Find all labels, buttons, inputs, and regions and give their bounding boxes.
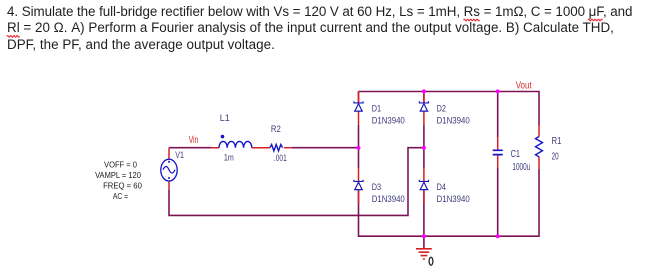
inductor L1 [212,135,270,148]
svg-text:V1: V1 [175,150,184,161]
diode D4 [419,168,428,204]
spellcheck squiggle under uF [588,19,602,21]
diode D3 [354,168,363,204]
wire: V1 top to L1 (net Vin) [169,147,212,149]
wire: V1 bottom to bridge right mid (node between D2/D4) [169,148,424,216]
svg-text:1000u: 1000u [512,162,530,173]
capacitor C1 [493,137,503,168]
svg-text:D4: D4 [437,182,446,193]
svg-text:R2: R2 [271,124,281,135]
wire: right branch top and bottom segments [423,91,425,236]
svg-text:VOFF = 0: VOFF = 0 [104,161,137,170]
svg-text:D1N3940: D1N3940 [372,116,405,126]
svg-text:20: 20 [552,151,559,162]
svg-text:VAMPL = 120: VAMPL = 120 [95,171,141,180]
svg-text:D1N3940: D1N3940 [437,194,470,204]
junction: bottom rail at C1 [496,234,500,238]
label V1 attributes VOFF/VAMPL/FREQ/AC [95,161,142,202]
svg-text:D3: D3 [372,182,381,193]
wire: R2 to bridge left branch [292,147,359,149]
svg-text:.001: .001 [274,153,287,164]
svg-text:FREQ = 60: FREQ = 60 [103,182,142,191]
wire: bottom rail (ground net) [359,169,540,236]
svg-text:Vout: Vout [516,81,532,92]
svg-text:1m: 1m [224,152,234,163]
junction: top rail at C1 [496,89,500,93]
wire: left branch top and bottom segments [358,91,360,204]
junction: bridge left mid node [357,146,361,150]
spellcheck squiggle under Rs [464,19,480,21]
diode D1 [354,91,363,125]
svg-text:R1: R1 [552,136,562,147]
wire: top rail (Vout net) from bridge top-left to R1 top [359,92,540,126]
diode D2 [419,91,428,125]
voltage source V1 [161,148,177,190]
ground 0 [416,236,432,259]
svg-text:L1: L1 [220,113,230,124]
svg-text:D1: D1 [372,103,381,114]
svg-text:D2: D2 [437,103,446,114]
svg-text:AC =: AC = [113,192,129,201]
junction: bottom rail at ground [422,234,426,238]
wire: right branch D2 bottom to mid junction [423,125,425,168]
resistor R2 [270,145,292,151]
label 0 (ground net) [429,257,433,265]
svg-text:C1: C1 [511,149,521,160]
wire: left branch D1 bottom to mid junction [358,125,360,168]
svg-text:D1N3940: D1N3940 [437,116,470,126]
svg-text:D1N3940: D1N3940 [372,194,405,204]
junction: top rail at D2 [422,89,426,93]
spellcheck squiggle under Rl [7,36,20,38]
svg-text:Vin: Vin [189,135,199,146]
junction: bridge right mid node [422,146,426,150]
wire: C1 branch vertical [497,91,499,236]
resistor R1 [536,126,543,169]
